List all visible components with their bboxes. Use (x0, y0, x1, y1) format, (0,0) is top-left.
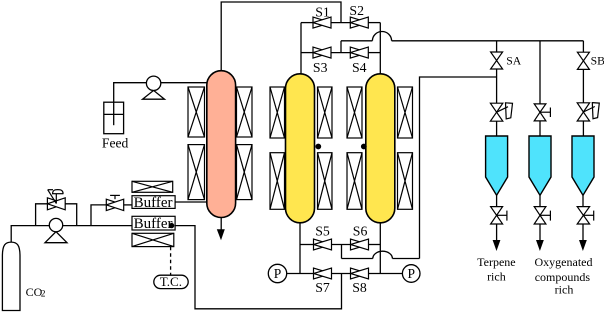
svg-text:S7: S7 (315, 280, 330, 295)
svg-text:SA: SA (506, 55, 522, 68)
svg-text:rich: rich (487, 270, 506, 284)
svg-text:S3: S3 (313, 60, 328, 75)
svg-text:2: 2 (41, 289, 46, 299)
svg-text:S5: S5 (315, 223, 330, 238)
svg-text:rich: rich (555, 283, 574, 297)
svg-text:Buffer: Buffer (134, 195, 173, 211)
svg-text:T.C.: T.C. (160, 274, 182, 289)
svg-text:S1: S1 (315, 4, 330, 19)
svg-text:P: P (274, 266, 282, 281)
svg-text:S6: S6 (353, 223, 368, 238)
svg-text:S8: S8 (352, 280, 367, 295)
svg-text:Terpene: Terpene (477, 255, 515, 269)
svg-text:S4: S4 (352, 60, 367, 75)
svg-text:Feed: Feed (102, 135, 129, 150)
svg-text:SB: SB (591, 55, 604, 68)
svg-text:P: P (407, 266, 415, 281)
svg-text:Oxygenated: Oxygenated (535, 255, 593, 269)
svg-text:S2: S2 (349, 3, 364, 18)
svg-text:Buffer: Buffer (134, 216, 173, 232)
